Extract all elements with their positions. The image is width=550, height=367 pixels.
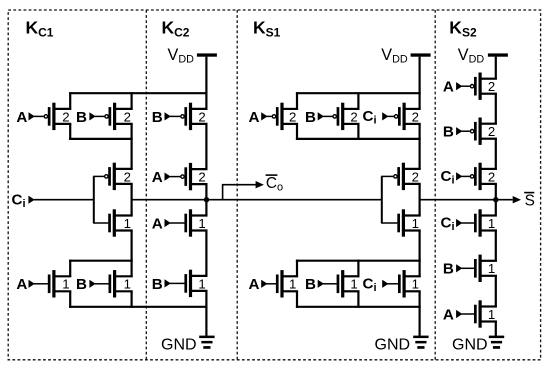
node A input label (KC2 nmos) xyxy=(152,215,163,232)
dashed divider between KS1 and KS2 xyxy=(434,10,436,360)
svg-text:1: 1 xyxy=(412,216,419,231)
wire riser A nmos bottom xyxy=(69,291,71,308)
wire Co-bar output stub riser xyxy=(222,185,224,201)
wire KC1 pass mid vertical xyxy=(131,184,133,216)
svg-text:1: 1 xyxy=(412,277,419,292)
node junction dot S-bar xyxy=(493,197,498,202)
node B input label (KC1 top) xyxy=(76,109,87,126)
svg-text:Ci: Ci xyxy=(441,215,455,233)
svg-text:1: 1 xyxy=(488,216,495,231)
node junction dot Co-bar xyxy=(204,197,209,202)
wire riser A pmos top xyxy=(69,92,71,109)
node B input label (KS1 top) xyxy=(305,109,316,126)
wire riser KS1 A nmos bottom xyxy=(296,291,298,308)
wire riser KS1 A nmos top xyxy=(296,260,298,277)
block label KS2 xyxy=(449,18,477,40)
transistor PMOS A (KC1 top left, size 2) xyxy=(29,103,72,130)
svg-text:KC1: KC1 xyxy=(26,18,54,40)
wire KS2 chain segment 2 xyxy=(495,138,497,169)
node Ci input label (KS1 bottom) xyxy=(363,276,377,294)
svg-text:1: 1 xyxy=(198,276,205,291)
node Ci input label (KS2 pmos) xyxy=(441,168,455,186)
svg-text:1: 1 xyxy=(488,307,495,322)
transistor NMOS pass (KS1 middle, size 1) xyxy=(381,209,421,236)
svg-text:1: 1 xyxy=(124,216,131,231)
wire KS1 pass mid vertical xyxy=(419,184,421,216)
svg-text:1: 1 xyxy=(62,277,69,292)
wire KC1 pmos-pair bottom rail xyxy=(69,138,133,140)
node B input label (KS1 bottom) xyxy=(305,276,316,293)
svg-text:1: 1 xyxy=(289,277,296,292)
wire riser KS1 A pmos top xyxy=(296,92,298,109)
svg-text:GND: GND xyxy=(161,337,197,354)
svg-text:B: B xyxy=(152,276,163,293)
svg-text:2: 2 xyxy=(198,170,205,185)
node A input label (KC2 pmos) xyxy=(152,169,163,186)
svg-text:1: 1 xyxy=(124,277,131,292)
wire KS2 chain to GND xyxy=(495,321,497,336)
wire S-bar output stub xyxy=(496,196,521,203)
wire KS1 nmos rail bottom xyxy=(296,306,421,308)
transistor NMOS A (KS2, size 1) xyxy=(456,300,497,327)
svg-text:A: A xyxy=(443,306,454,323)
dashed divider between KC1 and KC2 xyxy=(145,10,147,360)
svg-text:2: 2 xyxy=(350,109,357,124)
wire riser B pmos bottom down to pass pmos xyxy=(131,124,133,169)
transistor NMOS B (KC2, size 1) xyxy=(165,270,208,297)
node A input label (KC1 top) xyxy=(16,109,27,126)
svg-text:2: 2 xyxy=(488,169,495,184)
svg-text:A: A xyxy=(16,276,27,293)
transistor PMOS pass Ci (KC1 middle, size 2) xyxy=(93,163,133,190)
node A input label (KS2 nmos A) xyxy=(443,306,454,323)
node A input label (KC1 bottom) xyxy=(16,276,27,293)
transistor NMOS B (KS1 bottom, size 1) xyxy=(318,270,360,297)
wire KC1 pass nmos down to nmos pair xyxy=(131,230,133,277)
wire riser A nmos top xyxy=(69,260,71,277)
wire riser B pmos top xyxy=(131,92,133,109)
wire riser B nmos bottom xyxy=(131,291,133,308)
transistor NMOS A (KS1 bottom, size 1) xyxy=(261,270,298,297)
power VDD symbol (KC2) xyxy=(168,46,217,66)
svg-text:KS1: KS1 xyxy=(253,18,281,40)
wire KS2 chain segment 4 xyxy=(495,230,497,262)
node A input label (KS1 bottom) xyxy=(249,276,260,293)
wire riser KS1 B pmos bottom xyxy=(357,124,359,140)
svg-text:B: B xyxy=(443,124,454,141)
wire KS1 vdd line down xyxy=(419,57,421,109)
svg-text:A: A xyxy=(249,109,260,126)
svg-text:2: 2 xyxy=(488,124,495,139)
wire KC2 chain to GND xyxy=(205,291,207,336)
wire KS1 pmos rail bottom xyxy=(296,138,421,140)
transistor PMOS Ci (KS2, size 2) xyxy=(456,163,497,190)
wire riser A pmos bottom xyxy=(69,124,71,140)
wire KC2 chain segment 2 through output node xyxy=(205,184,207,216)
transistor NMOS Ci (KS1 bottom, size 1) xyxy=(382,270,421,297)
svg-text:2: 2 xyxy=(62,109,69,124)
svg-text:GND: GND xyxy=(452,337,488,354)
ground symbol (KS2) xyxy=(489,336,504,349)
ground symbol (KC2) xyxy=(199,336,214,349)
svg-text:A: A xyxy=(443,79,454,96)
node Ci input label (KS2 nmos) xyxy=(441,215,455,233)
svg-text:B: B xyxy=(76,109,87,126)
ground GND label (KC2) xyxy=(161,337,197,354)
wire KS1 output to KS2 chain xyxy=(419,199,497,201)
transistor PMOS A (KC2, size 2) xyxy=(165,163,208,190)
node B input label (KS2 nmos B) xyxy=(443,261,454,278)
transistor PMOS A (KS2, size 2) xyxy=(456,73,497,100)
svg-text:1: 1 xyxy=(198,216,205,231)
svg-text:2: 2 xyxy=(488,79,495,94)
svg-text:KS2: KS2 xyxy=(449,18,477,40)
power VDD symbol (KS1) xyxy=(381,46,430,66)
wire Ci input to pass gates xyxy=(28,196,94,204)
transistor NMOS B (KS2, size 1) xyxy=(456,255,497,282)
node B input label (KS2 pmos B) xyxy=(443,124,454,141)
svg-text:B: B xyxy=(152,109,163,126)
transistor PMOS A (KS1 top, size 2) xyxy=(261,103,298,130)
transistor PMOS B (KS1 top, size 2) xyxy=(318,103,360,130)
wire KC1 pmos-pair top rail to VDD line xyxy=(69,92,207,94)
transistor PMOS B (KC2, size 2) xyxy=(165,103,208,130)
wire KC2 chain from VDD xyxy=(205,57,207,109)
transistor PMOS B (KS2, size 2) xyxy=(456,118,497,145)
svg-text:2: 2 xyxy=(124,109,131,124)
svg-text:Ci: Ci xyxy=(363,108,377,126)
transistor PMOS Ci (KS1 top, size 2) xyxy=(382,103,421,130)
transistor NMOS B (KC1 bottom right, size 1) xyxy=(89,270,132,297)
svg-text:A: A xyxy=(249,276,260,293)
node A input label (KS2 pmos A) xyxy=(443,79,454,96)
node Co-bar output label xyxy=(266,175,284,194)
svg-text:VDD: VDD xyxy=(458,46,485,66)
wire KS1 vdd riser to pass pmos xyxy=(419,124,421,169)
wire KS1 pass nmos down xyxy=(419,230,421,277)
svg-text:KC2: KC2 xyxy=(162,18,190,40)
ground GND label (KS2) xyxy=(452,337,488,354)
svg-text:B: B xyxy=(443,261,454,278)
node B input label (KC2 pmos) xyxy=(152,109,163,126)
svg-text:A: A xyxy=(16,109,27,126)
svg-text:2: 2 xyxy=(412,169,419,184)
wire KS1 nmos rail top xyxy=(296,260,421,262)
node S-bar output label xyxy=(524,193,535,210)
wire KS2 chain from VDD xyxy=(495,57,497,79)
svg-text:A: A xyxy=(152,169,163,186)
wire riser KS1 B pmos top xyxy=(357,92,359,109)
svg-text:1: 1 xyxy=(488,261,495,276)
svg-text:Ci: Ci xyxy=(12,191,26,209)
svg-text:B: B xyxy=(76,276,87,293)
wire Co-bar output stub xyxy=(222,181,264,188)
node A input label (KS1 top) xyxy=(249,109,260,126)
wire riser KS1 B nmos bottom xyxy=(357,291,359,308)
wire KS2 chain segment 5 xyxy=(495,275,497,307)
svg-text:1: 1 xyxy=(350,277,357,292)
svg-text:VDD: VDD xyxy=(381,46,408,66)
wire main node KC1 output to KS1 pass gates xyxy=(131,199,383,201)
svg-text:GND: GND xyxy=(375,337,411,354)
node B input label (KC2 nmos) xyxy=(152,276,163,293)
ground symbol (KS1) xyxy=(413,336,428,349)
svg-text:B: B xyxy=(305,276,316,293)
svg-text:A: A xyxy=(152,215,163,232)
wire KC1 nmos-pair bottom rail to GND line xyxy=(69,306,207,308)
svg-text:2: 2 xyxy=(289,109,296,124)
wire KC1 pass-gate riser xyxy=(93,176,95,223)
wire KS1 pass-gate riser xyxy=(381,176,383,223)
wire KC2 chain segment 3 xyxy=(205,230,207,276)
node B input label (KC1 bottom) xyxy=(76,276,87,293)
block label KC1 xyxy=(26,18,54,40)
wire KC2 chain segment 1 xyxy=(205,124,207,169)
wire KS2 chain segment 1 xyxy=(495,93,497,124)
svg-text:Ci: Ci xyxy=(441,168,455,186)
wire riser KS1 B nmos top xyxy=(357,260,359,277)
wire riser KS1 A pmos bottom xyxy=(296,124,298,140)
transistor NMOS Ci (KS2, size 1) xyxy=(456,209,497,236)
transistor NMOS pass Ci (KC1 middle, size 1) xyxy=(93,209,133,236)
block label KS1 xyxy=(253,18,281,40)
transistor NMOS A (KC2, size 1) xyxy=(165,209,208,236)
svg-text:2: 2 xyxy=(412,109,419,124)
node Ci input label xyxy=(12,191,26,209)
transistor NMOS A (KC1 bottom left, size 1) xyxy=(29,270,72,297)
wire KC1 nmos-pair top rail xyxy=(69,260,133,262)
svg-text:VDD: VDD xyxy=(168,46,195,66)
wire KS1 gnd line down xyxy=(419,291,421,336)
node Ci input label (KS1 top) xyxy=(363,108,377,126)
dashed divider between KC2 and KS1 xyxy=(236,10,238,360)
transistor PMOS pass (KS1 middle, size 2) xyxy=(381,163,421,190)
wire KS1 pmos rail top xyxy=(296,92,421,94)
svg-text:B: B xyxy=(305,109,316,126)
svg-text:Ci: Ci xyxy=(363,276,377,294)
svg-text:Co: Co xyxy=(266,175,283,194)
wire KS2 chain segment 3 through S node xyxy=(495,184,497,215)
power VDD symbol (KS2) xyxy=(458,46,508,66)
svg-text:2: 2 xyxy=(124,169,131,184)
ground GND label (KS1) xyxy=(375,337,411,354)
transistor PMOS B (KC1 top right, size 2) xyxy=(89,103,132,130)
svg-text:S: S xyxy=(525,193,535,210)
svg-text:2: 2 xyxy=(198,109,205,124)
block label KC2 xyxy=(162,18,190,40)
